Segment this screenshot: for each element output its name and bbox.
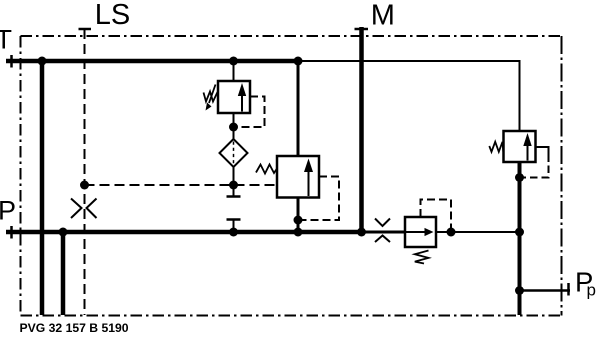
port T tick [10,55,13,68]
valve U3 check: spring below [415,251,429,264]
node T-relief junction [229,57,238,66]
node U4 pilot junction [515,173,524,182]
valve U3 check: arrow [406,231,426,233]
valve U1 relief: arrow [241,93,243,112]
wire Pp branch [520,289,571,292]
svg-text:P: P [0,196,16,226]
valve U2 main: pilot (dashed) [298,177,339,221]
node P-pump junction [59,228,68,237]
valve U3 check: pilot (dashed) [421,200,452,233]
wire filter to LS branch [233,167,235,185]
valve U4 pilot relief: bottom stub [518,162,522,178]
wire check valve to right node [436,231,520,233]
wire pump line 1 (thick vertical from T) [40,61,45,315]
port P tick [10,226,13,239]
wire T main (thick) [6,59,298,64]
wire right vertical to bottom [518,178,522,316]
valve U1 relief: bottom stub [233,113,235,139]
valve U2 main: arrow [308,170,310,196]
node T-main valve junction [294,57,303,66]
plug below LS branch [233,185,235,197]
valve U2 main: bottom stub [297,198,300,233]
node U2 pilot junction [294,216,303,225]
node U2-P junction [294,228,303,237]
valve U1 relief: pilot (dashed) [234,97,265,128]
svg-text:PVG 32 157 B 5190: PVG 32 157 B 5190 [20,321,129,335]
node right-P junction [515,228,524,237]
node P-M junction [357,228,366,237]
wire P main (thick) [6,230,362,235]
valve U2 main: body [277,156,319,198]
enclosure border top (dash-dot) [21,35,562,37]
node U3 pilot junction [447,228,456,237]
port Pp tick [567,283,570,296]
enclosure border bottom (dash-dot) [21,315,562,317]
orifice X on LS line [71,199,82,219]
wire LS horizontal branch (dashed) [85,184,278,186]
node Pp junction [515,286,524,295]
valve U4 pilot relief: spring [489,142,503,152]
wire P to check valve (medium) [362,231,406,234]
node T-pump junction [38,57,47,66]
node plug-P junction [229,228,238,237]
valve U2 main: spring [256,165,277,174]
enclosure border right (dash-dot) [561,36,563,316]
enclosure border left (dash-dot) [20,36,22,316]
wire T thin continuation to top-right valve [298,61,520,131]
svg-text:LS: LS [95,0,130,31]
svg-text:p: p [587,281,596,300]
valve U2 main: top stub [297,61,300,156]
plug above P line [227,218,241,221]
valve U3 check: body [405,217,436,247]
wire LS vertical (dashed) [84,29,86,315]
node LS branch junction [80,181,89,190]
orifice X on P line [375,219,390,227]
valve U4 pilot relief: pilot (dashed) [536,147,549,162]
filter F1 diamond [220,139,248,167]
wire pump line 2 (thick vertical from P) [61,232,66,315]
valve U1 relief: adjust arrow [209,85,216,104]
valve U4 pilot relief: body [504,131,536,162]
svg-text:T: T [0,25,12,55]
valve U1 relief: spring [204,92,218,102]
valve U1 relief: body [218,81,250,113]
wire M vertical (thick) [359,27,364,232]
node relief-filter junction [229,123,238,132]
port M tick [355,28,369,31]
valve U1 relief: top stub [233,61,235,81]
valve U4 pilot relief: arrow [527,144,529,161]
svg-text:M: M [371,0,395,32]
port LS tick [79,28,92,31]
node filter-LS junction [229,181,238,190]
